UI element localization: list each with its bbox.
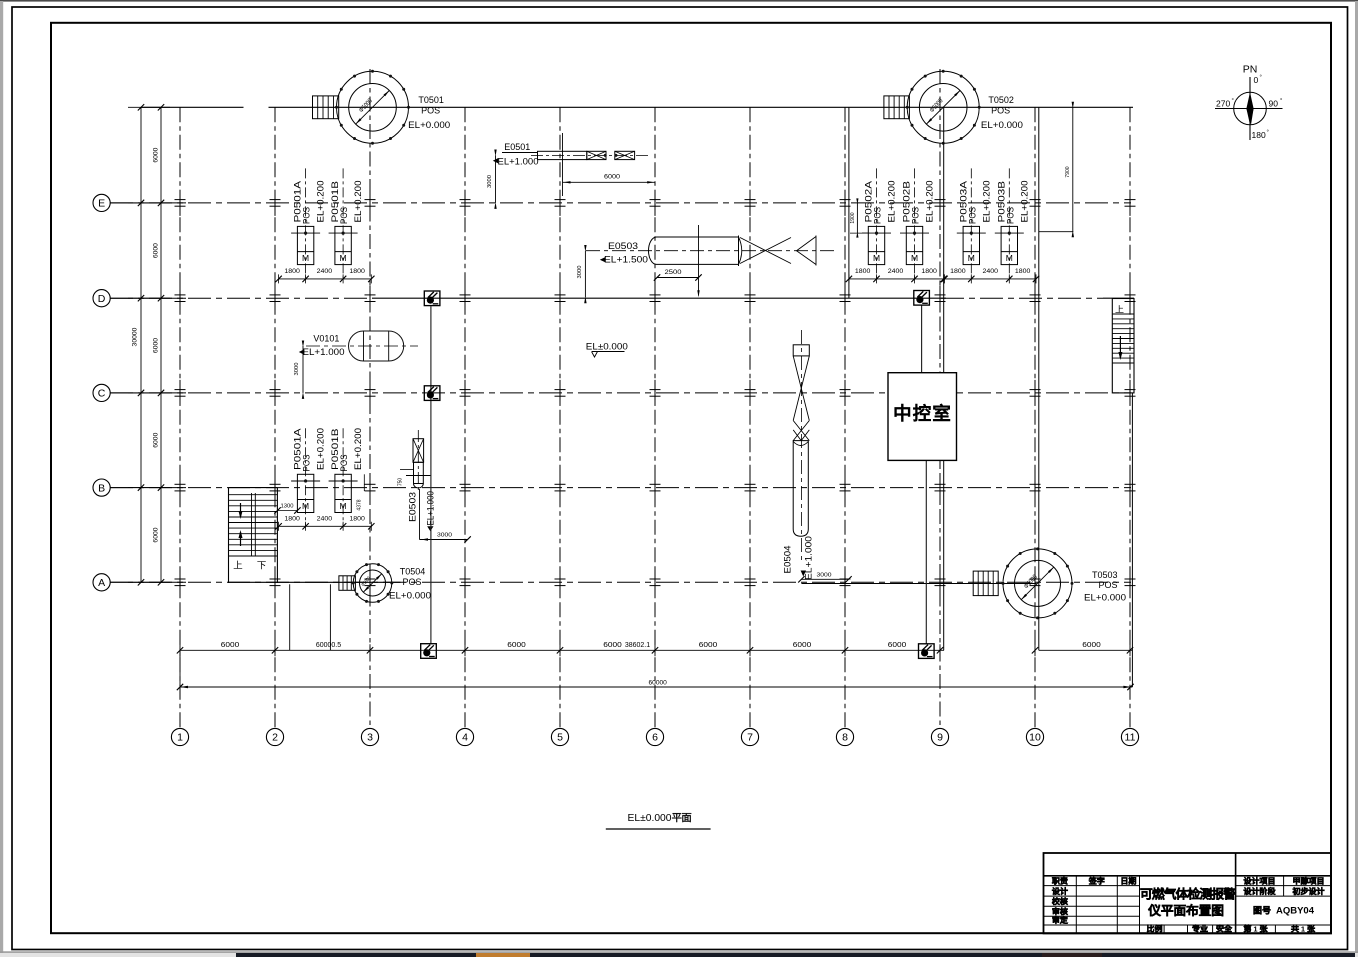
pump P0503A casing [963, 226, 979, 264]
svg-text:4: 4 [462, 732, 468, 744]
left staircase down arrow [240, 503, 242, 517]
vessel E0504 centerline [800, 330, 802, 560]
pump P0501B shaft line and dot [329, 232, 358, 234]
svg-text:POS: POS [1099, 580, 1118, 591]
svg-text:3000: 3000 [294, 363, 300, 376]
svg-text:POS: POS [403, 577, 422, 588]
control room label [895, 404, 950, 421]
grid row B centerline [110, 487, 1131, 489]
tank T0504 anchor dots [352, 563, 394, 603]
svg-text:6000: 6000 [153, 243, 160, 258]
grid row E centerline [110, 202, 1131, 204]
grid intersection ticks [175, 190, 1136, 595]
right staircase label up [1115, 305, 1123, 313]
grid column 9 centerline [939, 69, 941, 728]
vessel E0501 body [538, 151, 587, 159]
svg-text:M: M [968, 253, 975, 263]
svg-text:7900: 7900 [1065, 166, 1071, 177]
dimension 3000 V0101 [302, 346, 304, 393]
grid column 4 centerline [464, 107, 466, 728]
grid column 2 bubble [266, 728, 283, 745]
solid structure line at x=1038.8 [1038, 107, 1040, 650]
bottom status gray line [0, 951, 1358, 953]
svg-text:E0503: E0503 [408, 492, 418, 522]
svg-text:1900: 1900 [850, 212, 856, 223]
svg-text:1: 1 [177, 732, 183, 744]
compass north symbol PN [1215, 77, 1283, 140]
svg-text:EL+0.000: EL+0.000 [1084, 593, 1126, 604]
tank T0501 inner shell [349, 84, 397, 132]
grid column 4 bubble [456, 728, 473, 745]
gas detector K2 row C col 4 [424, 386, 440, 401]
svg-text:1800: 1800 [950, 268, 966, 275]
svg-text:V0101: V0101 [313, 334, 339, 345]
grid column 11 centerline [1129, 107, 1131, 728]
vessel E0501 bowtie section 1 [587, 151, 606, 159]
vessel E0503b centerline [417, 430, 419, 492]
grid column 9 bubble [931, 728, 948, 745]
dimension 3000 E0503 vertical [584, 251, 586, 298]
grid column 8 bubble [836, 728, 853, 745]
svg-text:2400: 2400 [317, 515, 333, 522]
svg-text:180: 180 [1252, 130, 1266, 140]
tank T0502 diameter line [926, 91, 960, 125]
svg-text:1800: 1800 [284, 515, 300, 522]
solid structure line at x=848.9 [848, 107, 850, 298]
svg-text:M: M [340, 253, 347, 263]
tank T0503 anchor dots [1002, 547, 1074, 619]
grid column 8 centerline [844, 107, 846, 728]
solid boundary line at x=1132.4 [1131, 393, 1133, 687]
vessel E0504 top section [793, 345, 809, 356]
left staircase up arrow [240, 532, 242, 546]
tank T0503 outer shell [1003, 549, 1072, 618]
svg-text:750: 750 [398, 478, 404, 487]
pump group dimension line [945, 278, 1037, 280]
svg-text:E0501: E0501 [504, 142, 530, 153]
svg-text:2: 2 [272, 732, 278, 744]
svg-text:POS: POS [967, 207, 977, 224]
svg-text:3000: 3000 [577, 266, 583, 279]
pump P0502A centerline [876, 168, 878, 277]
bottom dimension extensions and ticks [179, 644, 181, 656]
svg-text:EL+0.200: EL+0.200 [353, 181, 363, 223]
tank T0501 outer shell [337, 71, 409, 143]
vessel E0503 tube bundle X [740, 236, 816, 266]
vessel E0501 bowtie section 2 [615, 151, 635, 159]
svg-text:6000: 6000 [888, 642, 907, 649]
signal line detectors column 4 [430, 306, 432, 644]
dimension 3000 E0504 [801, 578, 848, 580]
grid column 6 bubble [646, 728, 663, 745]
svg-text:3000: 3000 [437, 533, 452, 539]
svg-text:6000: 6000 [153, 432, 160, 447]
svg-text:EL+0.200: EL+0.200 [316, 181, 326, 223]
svg-text:1800: 1800 [855, 268, 871, 275]
svg-text:EL+0.200: EL+0.200 [316, 428, 326, 470]
svg-text:EL+1.000: EL+1.000 [804, 536, 815, 580]
svg-text:POS: POS [339, 455, 349, 472]
vessel V0101 centerline [306, 345, 418, 347]
title block drawing number [1254, 906, 1271, 914]
svg-text:6000: 6000 [153, 147, 160, 162]
grid column 6 centerline [654, 107, 656, 728]
window top edge line [0, 0, 1358, 2]
right staircase down arrow [1119, 336, 1121, 358]
title block outer box [1044, 853, 1332, 933]
grid column 1 bubble [171, 728, 188, 745]
svg-text:M: M [873, 253, 880, 263]
svg-text:EL+0.200: EL+0.200 [981, 180, 991, 222]
pump P0502A shaft line and dot [862, 232, 891, 234]
title block signature column labels [1052, 877, 1067, 884]
svg-text:A: A [98, 577, 105, 589]
svg-text:38602.1: 38602.1 [625, 642, 650, 649]
pump P0503A centerline [970, 168, 972, 277]
svg-text:EL±0.000: EL±0.000 [628, 813, 672, 824]
grid column 2 centerline [274, 107, 276, 728]
svg-text:6000: 6000 [153, 338, 160, 353]
svg-text:M: M [911, 253, 918, 263]
grid column 11 bubble [1121, 728, 1138, 745]
svg-text:POS: POS [302, 207, 312, 224]
svg-text:60000.5: 60000.5 [316, 642, 341, 649]
svg-text:M: M [340, 501, 347, 511]
left gray edge strip [0, 1, 3, 957]
svg-text:EL+0.200: EL+0.200 [887, 181, 897, 223]
pump P0502B centerline [914, 168, 916, 277]
svg-text:3000: 3000 [817, 573, 832, 579]
svg-text:2400: 2400 [983, 268, 999, 275]
grid row E bubble [93, 194, 110, 211]
svg-text:E: E [98, 198, 105, 210]
pump P0503B casing [1001, 226, 1017, 264]
sheet number fields [1244, 925, 1251, 932]
dimension 3000 E0503b [420, 539, 468, 541]
grid column 10 bubble [1026, 728, 1043, 745]
extension lines near column 2-3 [289, 584, 291, 650]
grid column 3 centerline [369, 69, 371, 728]
svg-text:2400: 2400 [888, 268, 904, 275]
svg-text:1: 1 [1253, 924, 1257, 933]
grid row D centerline [110, 297, 372, 299]
grid row B bubble [93, 479, 110, 496]
svg-text:6000: 6000 [603, 642, 622, 649]
vessel E0503b X-box [413, 439, 424, 463]
svg-text:4378: 4378 [357, 499, 363, 510]
dimension 1300 stair to pump [278, 510, 298, 512]
left dimension line total 30000 [140, 107, 142, 582]
svg-text:EL+0.200: EL+0.200 [925, 181, 935, 223]
vessel E0504 body [793, 441, 808, 537]
grid column 3 bubble [361, 728, 378, 745]
svg-text:C: C [98, 388, 106, 400]
right gray edge strip [1355, 1, 1358, 957]
tank T0501 access ladder [313, 96, 339, 119]
pump P0503A shaft line and dot [957, 232, 986, 234]
svg-text:90: 90 [1269, 99, 1279, 109]
dimension 1900 P0502A [856, 203, 858, 233]
solid structure line at x=943.7 [943, 107, 945, 650]
svg-text:270: 270 [1216, 99, 1230, 109]
dimension 4378 [363, 474, 365, 491]
vessel E0504 lattice X [793, 356, 809, 441]
bottom bay dimension line [180, 649, 944, 651]
taskbar orange segment [476, 953, 530, 957]
left staircase labels up/down [234, 561, 243, 569]
svg-text:T0502: T0502 [988, 95, 1014, 106]
svg-text:D: D [98, 293, 106, 305]
tank T0504 access ladder [339, 576, 356, 591]
pump P0501A centerline [305, 428, 307, 525]
dimension 3000 E0501 [495, 155, 497, 203]
bottom taskbar dark strip [0, 953, 1358, 957]
grid column 5 centerline [559, 107, 561, 728]
tank T0504 inner shell [360, 570, 386, 596]
tank T0502 access ladder [884, 96, 910, 119]
tank T0501 diameter line [356, 91, 390, 125]
signal line control room to detector D5 [925, 460, 927, 644]
pump P0501A centerline [305, 168, 307, 277]
gas detector K3 bottom col 4 [421, 644, 437, 659]
svg-text:POS: POS [873, 207, 883, 224]
svg-text:1800: 1800 [349, 268, 365, 275]
svg-text:EL+0.000: EL+0.000 [389, 591, 431, 602]
pump P0501A shaft line and dot [291, 480, 320, 482]
svg-text:10: 10 [1029, 732, 1041, 744]
left staircase center rails [251, 493, 253, 556]
svg-text:EL+1.000: EL+1.000 [498, 157, 539, 168]
pump P0503B centerline [1008, 168, 1010, 277]
grid column 10 centerline [1034, 107, 1036, 728]
svg-text:POS: POS [339, 207, 349, 224]
pump group dimension line [849, 278, 944, 280]
vessel E0503 dished head [739, 237, 742, 264]
svg-text:POS: POS [302, 455, 312, 472]
svg-text:3: 3 [367, 732, 373, 744]
grid row A centerline [110, 581, 1131, 583]
svg-text:B: B [98, 482, 105, 494]
pump P0501B casing [335, 474, 351, 512]
svg-text:6000: 6000 [507, 642, 526, 649]
pump P0501A shaft line and dot [291, 232, 320, 234]
svg-text:6000: 6000 [604, 174, 621, 181]
grid row A bubble [93, 574, 110, 591]
svg-text:7: 7 [747, 732, 753, 744]
svg-text:1800: 1800 [1015, 268, 1031, 275]
svg-text:5: 5 [557, 732, 563, 744]
svg-text:T0501: T0501 [418, 95, 444, 106]
grid row C centerline [110, 392, 1131, 394]
svg-text:EL+0.200: EL+0.200 [1019, 181, 1029, 223]
tank T0503 inner shell [1015, 560, 1061, 606]
left dimension line bays 6000 [160, 107, 162, 582]
pump P0501B centerline [342, 168, 344, 277]
grid column 1 centerline [179, 107, 181, 728]
tank T0503 access ladder [973, 571, 998, 596]
bottom total dimension line 60000 [180, 686, 1132, 688]
svg-text:1: 1 [1301, 924, 1305, 933]
svg-text:EL+1.500: EL+1.500 [604, 255, 648, 266]
grid column 7 centerline [749, 107, 751, 728]
vessel E0503 shell [657, 236, 739, 267]
pump group dimension line [279, 278, 372, 280]
svg-text:6000: 6000 [793, 642, 812, 649]
svg-text:60000: 60000 [649, 680, 668, 687]
control room box [888, 373, 957, 461]
svg-text:3000: 3000 [487, 175, 493, 188]
dimension 7900 vertical [1072, 107, 1074, 231]
vessel E0503b lower pipe [414, 462, 424, 483]
svg-text:POS: POS [1005, 207, 1015, 224]
svg-text:2400: 2400 [317, 268, 333, 275]
gas detector K5 bottom col 9 [919, 644, 935, 659]
svg-text:M: M [302, 253, 309, 263]
signal line detector D4 to control room [921, 305, 923, 373]
tank T0501 anchor dots [335, 70, 410, 145]
svg-text:POS: POS [911, 207, 921, 224]
pump P0501B casing [335, 226, 351, 264]
svg-text:1800: 1800 [349, 515, 365, 522]
vessel V0101 shell [349, 331, 404, 361]
svg-text:EL±0.000: EL±0.000 [586, 342, 628, 353]
tank T0504 diameter line [363, 574, 381, 592]
svg-text:6000: 6000 [699, 642, 718, 649]
pump P0502A casing [868, 226, 884, 264]
svg-text:M: M [1006, 253, 1013, 263]
grid row C bubble [93, 384, 110, 401]
svg-text:1300: 1300 [281, 504, 294, 510]
title block project fields [1244, 877, 1274, 884]
svg-text:EL+1.000: EL+1.000 [303, 347, 345, 358]
grid row D bubble [93, 290, 110, 307]
svg-text:M: M [302, 501, 309, 511]
svg-text:EL+0.000: EL+0.000 [981, 120, 1023, 131]
svg-text:6: 6 [652, 732, 658, 744]
gas detector K4 row D col 9 [914, 291, 930, 306]
svg-text:9: 9 [937, 732, 943, 744]
pump P0503B shaft line and dot [995, 232, 1024, 234]
tank T0503 diameter line [1021, 567, 1054, 600]
svg-text:2500: 2500 [665, 269, 683, 276]
pump P0502B casing [906, 226, 922, 264]
svg-text:6000: 6000 [221, 642, 240, 649]
right staircase treads [1112, 314, 1134, 363]
pump P0501B centerline [342, 428, 344, 525]
svg-text:E0504: E0504 [783, 546, 794, 574]
svg-text:1800: 1800 [921, 268, 937, 275]
gas detector K1 row D col 4 [424, 291, 440, 306]
svg-text:T0504: T0504 [400, 567, 426, 578]
left staircase treads [229, 495, 278, 556]
pump P0501B shaft line and dot [329, 480, 358, 482]
left staircase enclosure [228, 488, 230, 583]
pump P0502B shaft line and dot [900, 232, 929, 234]
pump P0501A casing [297, 474, 313, 512]
svg-text:EL+0.000: EL+0.000 [408, 120, 450, 131]
svg-text:POS: POS [421, 106, 440, 117]
left dimension extension rows [128, 106, 170, 108]
svg-text:8: 8 [842, 732, 848, 744]
svg-text:0: 0 [1254, 75, 1259, 85]
title block vertical lines [1075, 876, 1077, 934]
dimension 2500 E0503 [657, 277, 699, 279]
svg-text:EL+0.200: EL+0.200 [353, 428, 363, 470]
svg-text:30000: 30000 [132, 327, 139, 346]
svg-text:11: 11 [1125, 732, 1136, 744]
top boundary line [141, 106, 244, 108]
vessel E0503 centerline [586, 250, 835, 252]
title block horizontal lines [1044, 875, 1332, 877]
svg-text:6000: 6000 [153, 527, 160, 542]
tank T0502 outer shell [907, 71, 979, 143]
right staircase enclosure [1112, 299, 1134, 393]
svg-text:1800: 1800 [284, 268, 300, 275]
tank T0502 inner shell [919, 84, 967, 132]
title block bottom row labels [1147, 925, 1162, 932]
tank T0504 outer shell [353, 564, 392, 603]
svg-text:POS: POS [991, 106, 1010, 117]
dimension 6000 E0501 to column 6 [563, 181, 656, 183]
svg-text:6000: 6000 [1082, 642, 1101, 649]
grid column 5 bubble [551, 728, 568, 745]
svg-text:AQBY04: AQBY04 [1276, 906, 1315, 917]
tank T0502 anchor dots [906, 70, 981, 145]
pump P0501A casing [297, 226, 313, 264]
svg-text:PN: PN [1243, 64, 1258, 76]
title block drawing title [1141, 888, 1236, 900]
grid column 7 bubble [741, 728, 758, 745]
vessel E0501 centerline [531, 154, 648, 156]
pump group dimension line [279, 525, 372, 527]
